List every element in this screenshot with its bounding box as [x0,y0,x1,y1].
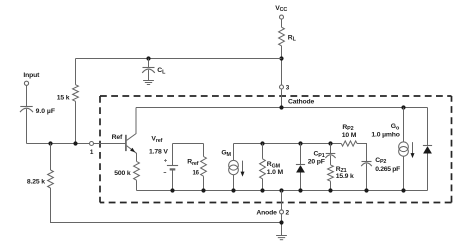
node RL / top wire junction [279,56,283,60]
node 8.25k junction [48,141,52,145]
svg-text:1.0 M: 1.0 M [267,169,284,176]
cathode rail [136,107,428,109]
wire 15k to node1 [75,101,77,143]
ground (CL) [143,80,154,82]
middle rail GM output node [234,143,342,145]
svg-text:Cathode: Cathode [288,98,315,105]
pin 1 ref terminal [90,142,94,146]
wire top horizontal [76,58,282,60]
resistor RL [279,27,285,46]
resistor 15k [73,85,79,102]
capacitor 9.0uF [20,106,32,108]
svg-text:500 k: 500 k [114,170,131,177]
dashed box TL431 outline [100,96,452,203]
svg-text:1.0 µmho: 1.0 µmho [371,131,399,138]
wire cap to node wire [26,109,28,144]
pin 2 anode terminal [279,188,283,192]
pin 3 cathode terminal [280,85,284,89]
ground (anode) [276,235,287,237]
svg-text:20 pF: 20 pF [308,158,325,165]
wire Vref to Rref [173,143,204,145]
svg-text:10 M: 10 M [342,132,357,139]
svg-text:Ref: Ref [112,134,123,141]
resistor RZ1 15.9k [330,156,332,165]
resistor Rref 16 [203,144,205,157]
svg-text:Input: Input [23,72,40,79]
wire RP2 to CP2 [357,144,367,162]
capacitor CP1 20pF [328,141,332,145]
capacitor CP2 0.265pF [362,161,372,163]
wire 8.25k to anode return [51,188,282,223]
diode D1 [298,141,302,145]
wire CL drop [148,59,150,68]
wire input node horizontal [27,143,90,145]
svg-text:15 k: 15 k [57,94,70,101]
bottom rail [137,190,428,192]
svg-text:1.78 V: 1.78 V [149,148,168,155]
wire RL to pin3 [281,46,283,85]
resistor 500k [134,161,140,180]
resistor 8.25k [50,144,52,171]
wire Vcc to RL [281,19,283,27]
wire anode to ground [281,214,283,236]
node 15k junction [73,141,77,145]
node CL tap [146,56,150,60]
wire input to cap [26,86,28,107]
svg-text:0.265 pF: 0.265 pF [375,166,400,173]
svg-text:9.0 µF: 9.0 µF [36,108,55,115]
wire 500k to bottom rail [136,180,138,190]
wire pin3 to rail [281,89,283,107]
svg-text:8.25 k: 8.25 k [27,178,45,185]
capacitor CL [143,67,155,69]
svg-text:16: 16 [193,171,200,177]
wire 15k column [75,59,77,85]
diode D2 output clamp [427,108,429,146]
svg-text:Anode: Anode [256,209,277,216]
wire CL to ground [148,70,150,81]
svg-text:15.9 k: 15.9 k [336,173,354,180]
resistor RGM 1.0M [260,141,264,145]
svg-text:2: 2 [286,209,290,216]
